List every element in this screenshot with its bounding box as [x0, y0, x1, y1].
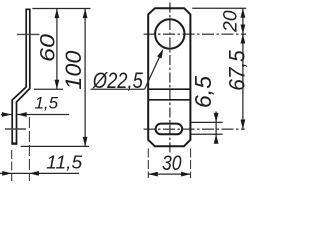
svg-text:20: 20 [219, 10, 241, 33]
svg-text:1,5: 1,5 [34, 94, 58, 113]
svg-text:30: 30 [162, 151, 182, 175]
svg-text:60: 60 [36, 34, 60, 62]
svg-text:6,5: 6,5 [190, 76, 216, 108]
svg-text:67,5: 67,5 [224, 50, 249, 91]
svg-text:100: 100 [61, 50, 86, 90]
svg-text:Ø22,5: Ø22,5 [92, 68, 143, 93]
svg-text:11,5: 11,5 [46, 151, 83, 172]
